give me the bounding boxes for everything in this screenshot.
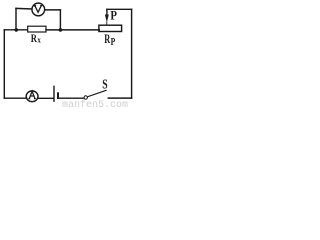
wire bottom left to ammeter [4,97,26,99]
wire voltmeter branch left vertical [15,8,17,29]
svg-text:S: S [102,78,108,93]
ammeter U2 circle [26,91,38,102]
wire left vertical [3,30,5,98]
node junction dot left [14,28,18,32]
svg-text:P: P [111,36,116,48]
switch pivot circle [84,96,87,99]
voltmeter U1 circle [32,3,45,16]
rheostat RP body [99,25,122,31]
svg-text:P: P [110,7,117,22]
wire Rx to RP [46,29,99,31]
svg-text:manfen5.com: manfen5.com [62,99,128,108]
battery long plate [53,86,55,101]
wire rheostat wiper stem [106,9,108,15]
resistor Rx [28,26,46,32]
rheostat wiper arrowhead [105,15,109,23]
wire wiper tip to box top [106,22,108,25]
svg-text:R: R [31,31,38,45]
svg-text:x: x [37,35,41,45]
wire voltmeter branch top left [16,7,32,10]
node junction dot right [59,28,63,32]
wire voltmeter branch right vertical [59,10,61,30]
switch S lever [87,90,106,97]
battery short plate [57,92,59,99]
voltmeter label V [34,6,42,13]
wire top right horizontal [107,8,132,10]
wire ammeter to battery [38,97,53,99]
wire right vertical [131,9,133,98]
wire battery to switch [59,97,84,99]
wire voltmeter branch top right [45,9,61,11]
wire main horizontal left of Rx [4,29,27,31]
ammeter label A [28,91,35,99]
wire switch contact to right corner [108,97,131,99]
